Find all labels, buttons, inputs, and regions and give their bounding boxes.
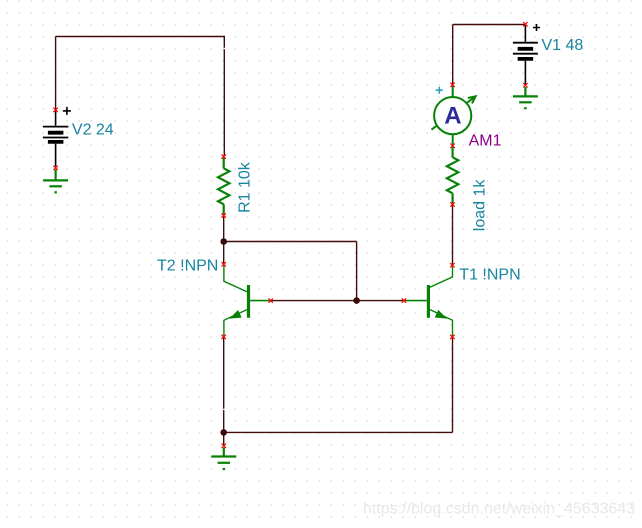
svg-text:V2 24: V2 24: [72, 121, 114, 138]
wire T2 emitter down to junction C: [223, 338, 225, 433]
svg-text:T2 !NPN: T2 !NPN: [157, 258, 218, 275]
svg-text:V1 48: V1 48: [542, 37, 584, 54]
ground at bottom: [211, 447, 236, 469]
pin x at bottom ground: [222, 444, 226, 448]
junction node A: [220, 238, 227, 245]
wire junction A to the right: [224, 241, 357, 243]
ground below V1: [513, 87, 538, 108]
wire ammeter top up to corner: [452, 25, 454, 85]
wire left vertical down to V2 plus terminal: [55, 37, 57, 110]
wire junction A down to T2 collector pin: [223, 242, 225, 264]
resistor load: [447, 147, 458, 207]
ground below V2: [43, 170, 68, 193]
ammeter AM1: [431, 83, 475, 148]
junction node C: [220, 429, 227, 436]
wire top-right horizontal to V1 plus terminal: [453, 24, 526, 26]
wire base rail T2 base to T1 base: [271, 300, 404, 302]
battery V1: [513, 22, 540, 88]
wire right rail up to T1 emitter: [452, 338, 454, 433]
battery V2: [43, 107, 71, 170]
svg-text:A: A: [444, 102, 461, 129]
svg-text:AM1: AM1: [469, 132, 502, 149]
wire bottom rail: [224, 431, 453, 433]
wire vertical down to R1 top (two segments with tiny gap): [223, 36, 225, 156]
wire T1 collector to load resistor bottom: [452, 205, 454, 265]
svg-text:load 1k: load 1k: [471, 179, 488, 232]
wire R1 bottom to junction A: [223, 216, 225, 242]
transistor T1: [402, 263, 455, 339]
wire top-left horizontal from V2 to R1: [56, 36, 225, 38]
svg-text:R1 10k: R1 10k: [236, 161, 253, 213]
resistor R1: [218, 154, 229, 217]
junction node B: [353, 297, 360, 304]
wire down to base junction B: [356, 242, 358, 301]
wire junction C down to ground pin: [223, 432, 225, 445]
transistor T2: [222, 262, 273, 339]
svg-text:T1 !NPN: T1 !NPN: [459, 267, 520, 284]
svg-text:https://blog.csdn.net/weixin_4: https://blog.csdn.net/weixin_45633643: [363, 501, 635, 518]
